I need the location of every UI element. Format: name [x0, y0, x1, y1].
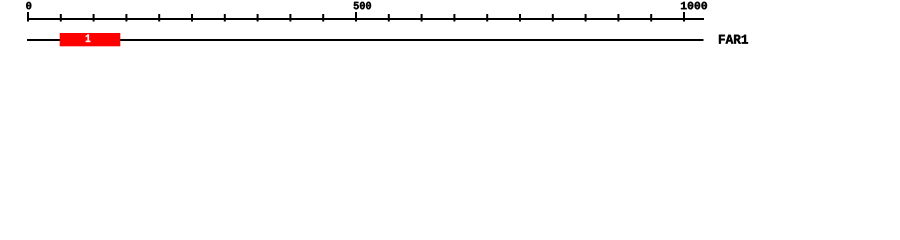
- minor tick 400: [289, 14, 291, 22]
- minor tick 250: [191, 14, 193, 22]
- gene name label FAR1: [719, 35, 748, 44]
- label 500: [354, 2, 371, 10]
- minor tick 700: [486, 14, 488, 22]
- minor tick 550: [388, 14, 390, 22]
- minor tick 200: [158, 14, 160, 22]
- minor tick 50: [60, 14, 62, 22]
- feature box label 1 (white): [86, 34, 91, 42]
- minor tick 150: [125, 14, 127, 22]
- major tick 0: [27, 12, 29, 22]
- minor tick 850: [585, 14, 587, 22]
- minor tick 100: [93, 14, 95, 22]
- minor tick 600: [421, 14, 423, 22]
- minor tick 650: [453, 14, 455, 22]
- feature box exon 1 (red): [60, 33, 121, 46]
- label 0: [26, 2, 31, 9]
- background: [0, 0, 900, 58]
- minor tick 300: [224, 14, 226, 22]
- minor tick 350: [257, 14, 259, 22]
- minor tick 950: [650, 14, 652, 22]
- minor tick 900: [617, 14, 619, 22]
- ruler axis line: [27, 18, 704, 20]
- major tick 500: [355, 12, 357, 22]
- major tick 1000: [683, 12, 685, 22]
- label 1000: [681, 2, 707, 10]
- feature track line: [27, 39, 704, 41]
- minor tick 750: [519, 14, 521, 22]
- minor tick 450: [322, 14, 324, 22]
- minor tick 800: [552, 14, 554, 22]
